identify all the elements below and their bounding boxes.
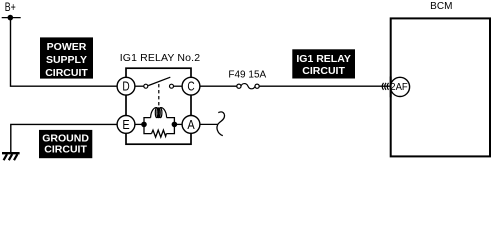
node B+ junction dot (8, 15, 14, 21)
resistor zigzag (152, 130, 167, 137)
terminal 2AF (390, 77, 409, 98)
svg-text:A: A (187, 118, 195, 132)
svg-text:POWER: POWER (47, 41, 87, 53)
fuse F49 (237, 84, 259, 89)
relay box (126, 68, 191, 144)
switch contact left (144, 84, 148, 88)
connector chevron 1 (382, 83, 383, 90)
wire C to fuse (201, 85, 238, 87)
ground symbol (2, 153, 20, 160)
wire A to continuation (201, 123, 219, 125)
BCM box (391, 18, 490, 156)
switch lead contact to C (174, 85, 182, 87)
terminal C (182, 77, 200, 95)
connector chevron 2 (385, 83, 386, 90)
svg-text:CIRCUIT: CIRCUIT (45, 67, 88, 79)
svg-text:BCM: BCM (430, 1, 452, 12)
switch contact right (170, 84, 174, 88)
wire ground up to E row (11, 124, 117, 152)
resistor branch leads (144, 124, 152, 133)
svg-text:D: D (122, 80, 129, 94)
IG1 relay circuit box (292, 49, 355, 78)
wire fuse to BCM (259, 85, 389, 87)
svg-text:B+: B+ (5, 0, 16, 14)
relay coil (151, 108, 167, 118)
coil branch leads (144, 118, 151, 125)
svg-text:SUPPLY: SUPPLY (46, 54, 87, 66)
ground circuit box (39, 130, 92, 158)
svg-text:2AF: 2AF (390, 82, 407, 93)
svg-text:CIRCUIT: CIRCUIT (302, 65, 345, 77)
svg-text:IG1 RELAY: IG1 RELAY (296, 53, 350, 65)
wire E to left dot (136, 123, 145, 125)
power supply circuit box (40, 37, 93, 79)
terminal E (117, 116, 135, 134)
svg-text:E: E (122, 118, 129, 132)
continuation squiggle (217, 112, 225, 136)
junction dot left (141, 122, 147, 128)
switch blade (148, 77, 170, 85)
wire B+ down to D row (11, 18, 117, 87)
svg-text:F49 15A: F49 15A (228, 70, 266, 81)
wire right dot to A (174, 123, 181, 125)
connector chevron 3 (387, 83, 388, 90)
junction dot right (172, 122, 178, 128)
node B+ junction bar (2, 17, 21, 19)
svg-text:C: C (187, 80, 194, 94)
terminal D (117, 77, 135, 95)
dashed actuator link (158, 84, 160, 107)
terminal A (182, 116, 200, 134)
svg-text:IG1 RELAY No.2: IG1 RELAY No.2 (120, 52, 201, 64)
svg-text:CIRCUIT: CIRCUIT (44, 144, 87, 156)
switch lead D to contact (136, 85, 144, 87)
